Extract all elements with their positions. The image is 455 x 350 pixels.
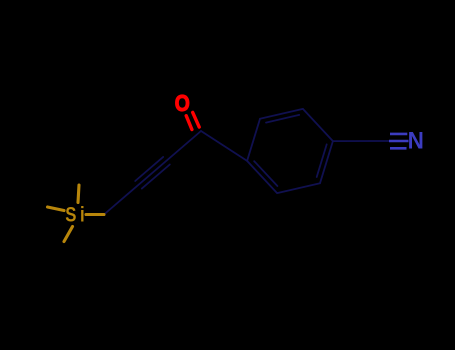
svg-text:Si: Si — [65, 204, 88, 227]
svg-text:O: O — [175, 91, 190, 117]
svg-text:N: N — [408, 127, 424, 154]
